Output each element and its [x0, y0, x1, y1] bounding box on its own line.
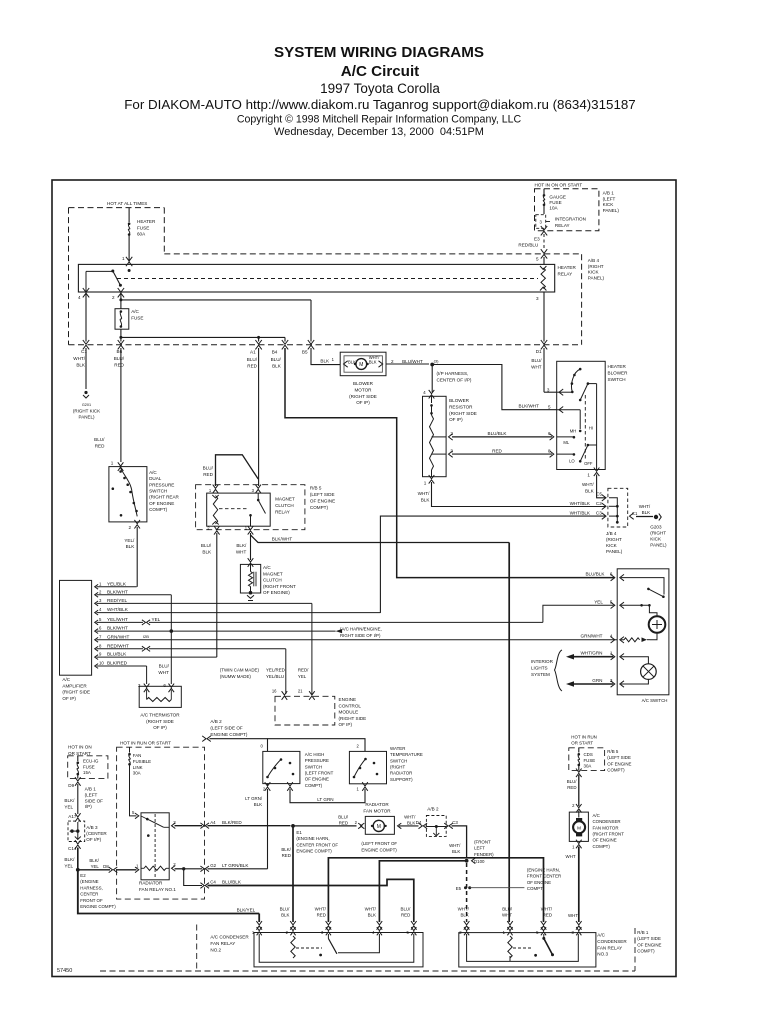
svg-text:PANEL): PANEL)	[603, 208, 620, 213]
svg-text:YEL: YEL	[64, 804, 73, 809]
svg-text:CENTER OF I/P): CENTER OF I/P)	[437, 377, 472, 382]
svg-text:OF IP): OF IP)	[356, 400, 370, 405]
svg-text:(RIGHT SIDE: (RIGHT SIDE	[449, 411, 477, 416]
svg-text:NO.2: NO.2	[210, 948, 221, 953]
svg-text:(A/C HARN/ENGINE,: (A/C HARN/ENGINE,	[340, 627, 382, 632]
svg-text:3: 3	[450, 448, 453, 453]
svg-text:A/B 2: A/B 2	[427, 807, 439, 812]
svg-text:A1: A1	[250, 350, 256, 355]
svg-text:B6: B6	[117, 349, 123, 354]
svg-text:2: 2	[391, 359, 394, 364]
svg-text:FRONT OF: FRONT OF	[80, 898, 103, 903]
svg-text:WHT: WHT	[531, 364, 542, 369]
svg-text:BLK/WHT: BLK/WHT	[519, 404, 540, 409]
svg-text:COMPT): COMPT)	[149, 507, 168, 512]
svg-text:RED: RED	[114, 362, 124, 367]
svg-text:BLK: BLK	[407, 821, 415, 826]
svg-text:16: 16	[272, 689, 277, 694]
svg-text:15A: 15A	[83, 770, 91, 775]
svg-text:(ENGINE: (ENGINE	[80, 879, 98, 884]
svg-text:C3: C3	[596, 511, 602, 516]
svg-text:5: 5	[536, 257, 539, 262]
svg-text:WHT/BLK: WHT/BLK	[570, 511, 591, 516]
svg-text:WHT/: WHT/	[541, 907, 553, 912]
svg-text:SWITCH: SWITCH	[608, 377, 626, 382]
svg-text:ENGINE COMPT): ENGINE COMPT)	[210, 732, 247, 737]
svg-text:ECU-IG: ECU-IG	[83, 759, 99, 764]
svg-text:RED: RED	[95, 443, 105, 448]
svg-text:OF ENGINE: OF ENGINE	[607, 761, 631, 766]
svg-text:6: 6	[548, 431, 551, 436]
svg-text:1997 Toyota Corolla: 1997 Toyota Corolla	[320, 81, 440, 96]
svg-text:(LEFT FRONT OF: (LEFT FRONT OF	[361, 841, 397, 846]
svg-text:BLK/: BLK/	[281, 847, 291, 852]
svg-text:FUSE: FUSE	[131, 315, 143, 320]
svg-text:WHT/: WHT/	[73, 356, 85, 361]
svg-text:(CENTER: (CENTER	[86, 831, 107, 836]
svg-text:BLK: BLK	[320, 359, 330, 364]
svg-text:COMPT): COMPT)	[607, 768, 625, 773]
svg-text:WHT/GRN: WHT/GRN	[581, 651, 603, 656]
svg-text:FAN: FAN	[133, 753, 142, 758]
svg-text:(RIGHT FRONT: (RIGHT FRONT	[593, 831, 625, 836]
svg-text:AMPLIFIER: AMPLIFIER	[62, 683, 87, 688]
svg-text:BLK: BLK	[642, 510, 651, 515]
svg-text:BLU/: BLU/	[280, 907, 291, 912]
svg-text:BLK/WHT: BLK/WHT	[107, 626, 128, 631]
svg-text:(LEFT SIDE: (LEFT SIDE	[637, 936, 661, 941]
svg-text:BLK/WHT: BLK/WHT	[107, 589, 128, 594]
svg-text:BLK: BLK	[202, 549, 212, 554]
svg-text:ENGINE COMPT): ENGINE COMPT)	[361, 847, 397, 852]
svg-text:OR START: OR START	[571, 741, 593, 746]
svg-text:BLU/: BLU/	[201, 543, 212, 548]
svg-text:BLK/RED: BLK/RED	[107, 661, 128, 666]
svg-text:FUSE: FUSE	[83, 764, 95, 769]
svg-text:1: 1	[424, 481, 427, 486]
svg-text:OF ENGINE): OF ENGINE)	[263, 590, 290, 595]
svg-text:CENTER: CENTER	[80, 892, 98, 897]
svg-text:WHT/: WHT/	[449, 843, 461, 848]
svg-text:COMPT): COMPT)	[305, 783, 323, 788]
svg-text:B4: B4	[272, 350, 278, 355]
svg-text:YEL/: YEL/	[124, 538, 135, 543]
svg-text:6: 6	[163, 683, 166, 688]
svg-text:(RIGHT REAR: (RIGHT REAR	[149, 495, 179, 500]
svg-text:BLU/BLK: BLU/BLK	[222, 880, 242, 885]
svg-text:BLK: BLK	[348, 360, 356, 365]
svg-text:BLK: BLK	[368, 913, 376, 918]
svg-text:A/C: A/C	[149, 470, 157, 475]
svg-text:30A: 30A	[133, 771, 141, 776]
svg-text:6: 6	[610, 572, 613, 577]
svg-text:BLU/: BLU/	[203, 466, 214, 471]
svg-text:BLU/: BLU/	[114, 356, 125, 361]
svg-text:RADIATOR: RADIATOR	[390, 771, 412, 776]
svg-text:BLK/RED: BLK/RED	[222, 820, 242, 825]
svg-text:D9: D9	[68, 783, 74, 788]
svg-text:INTERIOR: INTERIOR	[531, 659, 554, 664]
svg-text:C5: C5	[596, 492, 602, 497]
svg-text:WHT: WHT	[158, 670, 169, 675]
svg-text:FUSE: FUSE	[584, 758, 596, 763]
svg-text:A/C Circuit: A/C Circuit	[341, 63, 419, 80]
svg-text:OF IP): OF IP)	[339, 722, 353, 727]
svg-text:LINK: LINK	[133, 765, 143, 770]
svg-text:MAGNET: MAGNET	[275, 497, 295, 502]
svg-text:RED/: RED/	[298, 668, 309, 673]
svg-text:OF I/P): OF I/P)	[86, 837, 101, 842]
svg-text:HOT IN ON: HOT IN ON	[68, 745, 92, 750]
svg-text:FENDER): FENDER)	[474, 852, 494, 857]
svg-text:WATER: WATER	[390, 746, 405, 751]
svg-text:FAN MOTOR: FAN MOTOR	[593, 825, 619, 830]
svg-text:FUSE: FUSE	[549, 200, 561, 205]
svg-text:I/P): I/P)	[85, 804, 93, 809]
svg-text:NO.3: NO.3	[597, 952, 608, 957]
svg-text:OF ENGINE: OF ENGINE	[310, 499, 335, 504]
svg-text:SIDE OF: SIDE OF	[85, 798, 104, 803]
svg-text:(LEFT: (LEFT	[85, 792, 98, 797]
svg-text:RADIATOR: RADIATOR	[365, 802, 389, 807]
svg-text:WHT/BLK: WHT/BLK	[570, 501, 591, 506]
svg-text:1: 1	[111, 461, 114, 466]
svg-text:YEL/BLK: YEL/BLK	[107, 581, 127, 586]
svg-text:WHT: WHT	[502, 913, 512, 918]
svg-text:A/B 2: A/B 2	[210, 719, 222, 724]
svg-text:DUAL: DUAL	[149, 476, 162, 481]
svg-text:8: 8	[548, 448, 551, 453]
svg-text:(RIGHT SIDE: (RIGHT SIDE	[62, 690, 90, 695]
svg-text:BLK: BLK	[272, 363, 282, 368]
svg-text:BLK: BLK	[76, 362, 86, 367]
svg-text:RESISTOR: RESISTOR	[449, 404, 473, 409]
svg-text:4: 4	[78, 295, 81, 300]
svg-text:MH: MH	[570, 429, 577, 434]
svg-text:WHT: WHT	[566, 854, 576, 859]
svg-text:WHT/: WHT/	[404, 815, 416, 820]
svg-text:PANEL): PANEL)	[650, 543, 667, 548]
svg-text:ENGINE COMPT): ENGINE COMPT)	[80, 904, 116, 909]
svg-text:CENTER FRONT OF: CENTER FRONT OF	[296, 842, 338, 847]
svg-text:BLK/: BLK/	[64, 798, 75, 803]
svg-text:BLU/BLK: BLU/BLK	[585, 572, 605, 577]
svg-text:GRN/WHT: GRN/WHT	[107, 634, 130, 639]
svg-text:BLOWER: BLOWER	[608, 371, 629, 376]
svg-text:(ENGINE HARN,: (ENGINE HARN,	[296, 836, 329, 841]
svg-text:30A: 30A	[584, 764, 592, 769]
svg-text:FUSIBLE: FUSIBLE	[133, 759, 151, 764]
svg-text:4: 4	[610, 634, 613, 639]
svg-text:2: 2	[112, 295, 115, 300]
svg-text:HOT IN RUN OR START: HOT IN RUN OR START	[120, 741, 171, 746]
svg-text:(LEFT SIDE OF: (LEFT SIDE OF	[210, 725, 243, 730]
svg-text:BLU/: BLU/	[401, 907, 412, 912]
svg-text:(TWIN CAM MADE): (TWIN CAM MADE)	[220, 668, 260, 673]
svg-text:SYSTEM: SYSTEM	[531, 672, 550, 677]
svg-text:OF ENGINE: OF ENGINE	[527, 880, 551, 885]
svg-text:BLU/: BLU/	[94, 437, 105, 442]
svg-text:(LEFT SIDE: (LEFT SIDE	[607, 755, 631, 760]
svg-text:RELAY: RELAY	[275, 510, 290, 515]
svg-text:R/B 5: R/B 5	[310, 486, 322, 491]
svg-text:WHT/: WHT/	[582, 482, 594, 487]
svg-text:YEL: YEL	[298, 674, 307, 679]
svg-text:RELAY: RELAY	[558, 271, 573, 276]
svg-text:OF IP): OF IP)	[62, 696, 76, 701]
svg-text:BLK/: BLK/	[236, 543, 247, 548]
svg-text:C1: C1	[632, 511, 638, 516]
svg-text:WHT/: WHT/	[365, 907, 377, 912]
svg-text:A/B 1: A/B 1	[603, 191, 615, 196]
svg-text:4: 4	[423, 390, 426, 395]
svg-text:WHT/BLK: WHT/BLK	[107, 607, 129, 612]
svg-text:21: 21	[298, 689, 303, 694]
svg-text:RED: RED	[317, 913, 326, 918]
svg-text:FAN RELAY NO.1: FAN RELAY NO.1	[139, 887, 176, 892]
svg-text:C14: C14	[68, 846, 77, 851]
svg-text:LT GRN/: LT GRN/	[245, 796, 263, 801]
svg-text:FAN RELAY: FAN RELAY	[210, 941, 235, 946]
svg-text:G203: G203	[650, 525, 662, 530]
svg-text:OF ENGINE: OF ENGINE	[637, 942, 661, 947]
svg-text:2: 2	[450, 431, 453, 436]
svg-text:(LEFT FRONT: (LEFT FRONT	[305, 770, 334, 775]
svg-text:OF ENGINE: OF ENGINE	[149, 501, 174, 506]
svg-text:(RIGHT FRONT: (RIGHT FRONT	[263, 584, 296, 589]
svg-text:1: 1	[122, 256, 125, 261]
svg-text:(RIGHT SIDE: (RIGHT SIDE	[146, 719, 174, 724]
svg-text:A/C: A/C	[263, 565, 271, 570]
svg-text:OF IP): OF IP)	[449, 417, 463, 422]
svg-text:E1: E1	[296, 830, 302, 835]
svg-text:E3: E3	[534, 237, 540, 242]
svg-text:D100: D100	[474, 859, 485, 864]
svg-text:M: M	[359, 362, 363, 368]
svg-text:OF ENGINE: OF ENGINE	[305, 777, 329, 782]
svg-text:5: 5	[548, 405, 551, 410]
svg-text:RADIATOR: RADIATOR	[139, 881, 163, 886]
svg-text:COMPT): COMPT)	[637, 949, 655, 954]
svg-text:SWITCH: SWITCH	[149, 488, 167, 493]
svg-text:HARNESS,: HARNESS,	[80, 885, 102, 890]
svg-text:A/C SWITCH: A/C SWITCH	[642, 698, 668, 703]
svg-text:D4: D4	[416, 820, 422, 825]
svg-text:A/B 1: A/B 1	[85, 787, 97, 792]
svg-text:YEL: YEL	[91, 864, 100, 869]
svg-text:1: 1	[587, 473, 590, 478]
svg-text:PRESSURE: PRESSURE	[149, 482, 174, 487]
svg-text:WHT: WHT	[568, 913, 578, 918]
svg-text:RED/WHT: RED/WHT	[107, 643, 129, 648]
svg-text:BLK/YEL: BLK/YEL	[237, 908, 256, 913]
svg-text:COMPT): COMPT)	[527, 886, 545, 891]
svg-text:HOT AT ALL TIMES: HOT AT ALL TIMES	[107, 201, 147, 206]
svg-text:KICK: KICK	[603, 202, 615, 207]
svg-text:BLK: BLK	[452, 849, 460, 854]
svg-text:GRN/WHT: GRN/WHT	[581, 634, 603, 639]
svg-text:A/B 3: A/B 3	[86, 825, 98, 830]
svg-text:YEL/RED: YEL/RED	[266, 668, 285, 673]
svg-text:SYSTEM WIRING DIAGRAMS: SYSTEM WIRING DIAGRAMS	[274, 44, 484, 61]
svg-text:BLU/BLK: BLU/BLK	[488, 431, 508, 436]
svg-text:BLU/WHT: BLU/WHT	[402, 359, 423, 364]
svg-text:RED: RED	[282, 853, 291, 858]
svg-text:KICK: KICK	[588, 270, 600, 275]
svg-text:LIGHTS: LIGHTS	[531, 666, 548, 671]
svg-text:3: 3	[547, 388, 550, 393]
svg-text:RELAY: RELAY	[555, 223, 570, 228]
svg-text:A/C: A/C	[131, 309, 139, 314]
svg-text:I2B: I2B	[143, 634, 149, 639]
svg-text:1: 1	[610, 651, 613, 656]
svg-text:YEL: YEL	[594, 600, 603, 605]
svg-text:A/C: A/C	[593, 813, 600, 818]
svg-text:TEMPERATURE: TEMPERATURE	[390, 752, 423, 757]
svg-text:A/C HIGH: A/C HIGH	[305, 752, 325, 757]
svg-text:A4: A4	[210, 820, 216, 825]
svg-text:(RIGHT: (RIGHT	[588, 264, 604, 269]
svg-text:YEL/BLU: YEL/BLU	[266, 674, 284, 679]
svg-text:BLU/: BLU/	[271, 357, 282, 362]
svg-text:BLK: BLK	[281, 913, 289, 918]
svg-text:BLK: BLK	[254, 802, 262, 807]
svg-text:G201: G201	[82, 403, 91, 407]
svg-text:Wednesday, December 13, 2000: Wednesday, December 13, 2000 04:51PM	[274, 126, 484, 138]
svg-text:RED: RED	[203, 472, 213, 477]
svg-text:(3): (3)	[434, 359, 440, 364]
svg-text:INTEGRATION: INTEGRATION	[555, 217, 586, 222]
svg-text:OF ENGINE: OF ENGINE	[593, 838, 617, 843]
svg-text:BLK: BLK	[460, 913, 468, 918]
svg-text:(I/P HARNESS,: (I/P HARNESS,	[437, 371, 469, 376]
svg-text:KICK: KICK	[650, 537, 662, 542]
svg-text:YEL: YEL	[64, 863, 73, 868]
svg-text:M: M	[377, 824, 381, 830]
svg-text:BLK: BLK	[126, 544, 136, 549]
svg-text:HEATER: HEATER	[558, 265, 577, 270]
svg-text:A/B 4: A/B 4	[588, 258, 600, 263]
svg-text:PANEL): PANEL)	[79, 414, 95, 419]
svg-text:ML: ML	[563, 440, 569, 445]
svg-text:(RIGHT: (RIGHT	[650, 531, 666, 536]
svg-text:COMPT): COMPT)	[593, 844, 611, 849]
svg-text:2: 2	[128, 525, 131, 530]
svg-text:PRESSURE: PRESSURE	[305, 758, 329, 763]
svg-text:FAN RELAY: FAN RELAY	[597, 945, 622, 950]
svg-text:CONTROL: CONTROL	[339, 703, 362, 708]
svg-text:Copyright © 1998 Mitchell Repa: Copyright © 1998 Mitchell Repair Informa…	[237, 114, 522, 126]
svg-text:MODULE: MODULE	[339, 710, 359, 715]
svg-text:CLUTCH: CLUTCH	[275, 503, 294, 508]
svg-text:WHT: WHT	[236, 549, 247, 554]
svg-text:For DIAKOM-AUTO http://www.dia: For DIAKOM-AUTO http://www.diakom.ru Tag…	[124, 97, 635, 112]
svg-text:J/B 4: J/B 4	[606, 531, 617, 536]
svg-text:BLU/: BLU/	[502, 907, 513, 912]
svg-text:RED/BLU: RED/BLU	[518, 243, 538, 248]
svg-text:BLK: BLK	[421, 497, 431, 502]
svg-text:LEFT: LEFT	[474, 846, 485, 851]
svg-text:(RIGHT: (RIGHT	[606, 537, 622, 542]
svg-text:SWITCH: SWITCH	[305, 764, 322, 769]
svg-text:WHT/: WHT/	[639, 504, 651, 509]
svg-text:LT GRN/BLK: LT GRN/BLK	[222, 863, 249, 868]
svg-text:ENGINE: ENGINE	[339, 697, 357, 702]
svg-text:KICK: KICK	[606, 543, 618, 548]
svg-text:(RIGHT KICK: (RIGHT KICK	[73, 408, 100, 413]
svg-text:C2: C2	[596, 501, 602, 506]
svg-text:BLK: BLK	[585, 488, 595, 493]
svg-text:HOT IN ON OR START: HOT IN ON OR START	[535, 182, 583, 187]
svg-text:BLU/BLK: BLU/BLK	[107, 652, 127, 657]
svg-text:RED: RED	[543, 913, 552, 918]
svg-text:60A: 60A	[137, 232, 146, 237]
svg-text:BLU/: BLU/	[531, 358, 542, 363]
svg-text:5: 5	[610, 600, 613, 605]
svg-text:C4: C4	[210, 880, 216, 885]
svg-text:A/C: A/C	[62, 677, 70, 682]
svg-text:RED: RED	[247, 363, 257, 368]
svg-text:PANEL): PANEL)	[606, 549, 623, 554]
svg-text:CONDENSER: CONDENSER	[597, 939, 627, 944]
svg-text:RED: RED	[339, 821, 348, 826]
svg-text:FAN MOTOR: FAN MOTOR	[363, 808, 391, 813]
svg-text:(LEFT: (LEFT	[603, 196, 616, 201]
svg-text:BLK/: BLK/	[64, 857, 75, 862]
svg-text:(RIGHT SIDE: (RIGHT SIDE	[339, 716, 367, 721]
svg-text:E2: E2	[80, 873, 86, 878]
svg-text:(NUMW MADE): (NUMW MADE)	[220, 674, 252, 679]
svg-text:57450: 57450	[57, 968, 72, 974]
svg-text:10: 10	[99, 661, 104, 666]
svg-text:COMPT): COMPT)	[310, 505, 329, 510]
svg-text:YEL: YEL	[152, 617, 161, 622]
svg-text:E5: E5	[456, 886, 462, 891]
svg-text:SWITCH: SWITCH	[390, 758, 407, 763]
svg-text:LT GRN: LT GRN	[317, 797, 333, 802]
svg-text:(RIGHT SIDE: (RIGHT SIDE	[349, 394, 377, 399]
svg-text:RED: RED	[492, 448, 502, 453]
svg-text:BLU/: BLU/	[338, 815, 349, 820]
svg-text:PANEL): PANEL)	[588, 275, 605, 280]
svg-text:A/C CONDENSER: A/C CONDENSER	[210, 935, 249, 940]
svg-text:CONDENSER: CONDENSER	[593, 819, 621, 824]
svg-text:HEATER: HEATER	[608, 364, 627, 369]
svg-text:OR START: OR START	[68, 751, 91, 756]
svg-text:CDS: CDS	[584, 752, 593, 757]
svg-text:BLU/: BLU/	[247, 357, 258, 362]
svg-text:D8: D8	[103, 864, 109, 869]
svg-text:HOT IN RUN: HOT IN RUN	[571, 735, 597, 740]
svg-text:RED: RED	[401, 913, 410, 918]
svg-text:R/B 1: R/B 1	[637, 930, 649, 935]
svg-text:MOTOR: MOTOR	[354, 387, 372, 392]
svg-text:WHT/: WHT/	[418, 491, 430, 496]
svg-text:BLOWER: BLOWER	[449, 398, 470, 403]
svg-text:BLK/: BLK/	[89, 858, 99, 863]
svg-text:10A: 10A	[549, 206, 558, 211]
svg-text:WHT/: WHT/	[458, 907, 470, 912]
svg-text:BLOWER: BLOWER	[353, 381, 374, 386]
svg-text:(RIGHT: (RIGHT	[390, 764, 405, 769]
svg-text:OFF: OFF	[584, 461, 593, 466]
svg-text:3: 3	[536, 296, 539, 301]
svg-text:CLUTCH: CLUTCH	[263, 578, 282, 583]
svg-text:3: 3	[610, 678, 613, 683]
svg-text:GRN: GRN	[592, 678, 602, 683]
svg-text:BLK/WHT: BLK/WHT	[272, 537, 293, 542]
svg-text:D1: D1	[536, 349, 542, 354]
